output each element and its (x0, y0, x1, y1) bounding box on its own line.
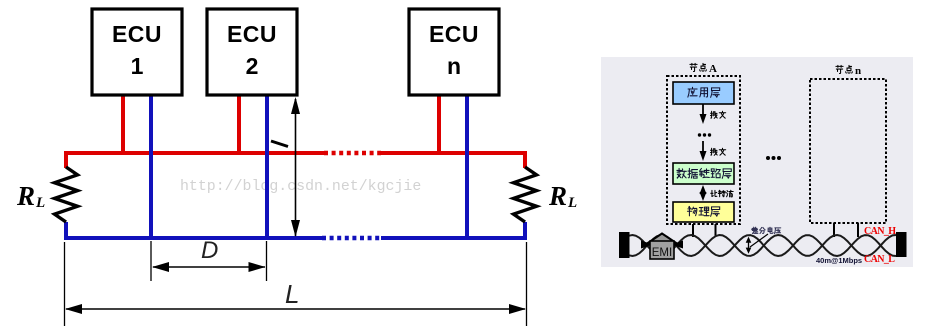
wire: CAN-H red bus solid left segment with left corner down to resistor (66, 153, 324, 168)
label message 1 (710, 111, 717, 118)
double arrow datalink-physical (702, 189, 704, 197)
differential voltage label (752, 227, 758, 233)
ECU box node 2 (207, 9, 297, 95)
svg-text:A: A (709, 63, 717, 75)
twisted pair strand 2 (629, 235, 896, 256)
svg-text:R: R (548, 181, 567, 211)
node A taps to bus (692, 224, 694, 237)
label bitstream (711, 190, 717, 196)
leader line (750, 234, 768, 247)
node n dashed box (810, 79, 886, 223)
svg-text:EMI: EMI (652, 247, 672, 259)
datalink layer box (673, 163, 734, 184)
tick mark on arrow (271, 141, 288, 147)
wire: ECU1 red drop (121, 93, 125, 153)
wire: ECU1 blue drop (149, 93, 153, 238)
svg-text:L: L (35, 195, 45, 211)
svg-text:L: L (567, 195, 577, 211)
node A dashed box (667, 76, 740, 224)
node n label (836, 65, 843, 73)
dimension D arrow line (153, 266, 265, 268)
bus terminator right (896, 232, 907, 257)
wire: ECU2 red drop (237, 93, 241, 153)
node A label (690, 63, 697, 71)
ellipsis node A (698, 133, 701, 136)
wire: ECUn red drop (437, 93, 441, 153)
ECU box node n (409, 9, 499, 95)
physical layer box (673, 202, 734, 222)
wire: blue bus solid right segment with right corner up to resistor (381, 222, 527, 238)
svg-text:CAN_H: CAN_H (864, 226, 896, 237)
arrow app to ... (702, 104, 704, 118)
svg-text:1: 1 (131, 53, 144, 79)
resistor RL right termination (514, 167, 537, 222)
svg-text:ECU: ECU (112, 21, 162, 47)
svg-text:2: 2 (246, 53, 259, 79)
svg-text:L: L (285, 279, 299, 309)
ECU box node 1 (92, 9, 182, 95)
wire: red bus solid right segment with right corner down to resistor (381, 153, 525, 168)
svg-text:CAN_L: CAN_L (864, 254, 895, 265)
wire: ECU2 blue drop (265, 93, 269, 238)
svg-text:n: n (447, 53, 461, 79)
resistor RL left termination (55, 167, 78, 222)
wire: red bus dotted middle segment (324, 151, 381, 156)
bus terminator left (619, 232, 630, 258)
svg-text:R: R (16, 181, 35, 211)
panel background (601, 57, 913, 267)
arrow ... to datalink (702, 141, 704, 155)
svg-text:ECU: ECU (227, 21, 277, 47)
node n taps to bus (833, 223, 835, 237)
application layer box U-app (673, 82, 734, 104)
label message 2 (710, 148, 717, 155)
dimension L extension lines (64, 242, 66, 326)
EMI source roof (647, 234, 677, 244)
differential voltage double arrow (748, 240, 750, 250)
svg-text:n: n (855, 65, 861, 77)
wire: ECUn blue drop (465, 93, 469, 238)
svg-text:40m@1Mbps: 40m@1Mbps (816, 256, 862, 265)
svg-text:http://blog.csdn.net/kgcjie: http://blog.csdn.net/kgcjie (180, 179, 421, 195)
wire: CAN-L blue bus solid left segment with left corner up to resistor (66, 222, 322, 238)
dimension arrow: bus pair spacing at ECU2 (295, 99, 297, 236)
EMI box (650, 241, 674, 259)
ellipsis between nodes (766, 156, 770, 160)
svg-text:ECU: ECU (429, 21, 479, 47)
twisted pair strand 1 (629, 235, 896, 256)
svg-text:D: D (201, 237, 218, 264)
EMI arrows (641, 241, 653, 249)
dimension L arrow line (66, 308, 525, 310)
dimension D extension lines (150, 241, 152, 281)
wire: blue bus dotted middle segment (322, 236, 381, 241)
